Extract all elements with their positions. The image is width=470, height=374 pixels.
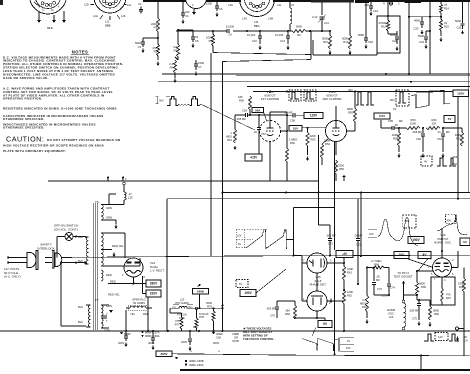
label 117 volts xyxy=(4,267,21,279)
coil L5 xyxy=(290,2,292,31)
svg-text:R58: R58 xyxy=(393,136,398,140)
svg-text:-4V: -4V xyxy=(342,252,348,256)
voltage box 9V xyxy=(318,321,332,328)
tube socket 51C xyxy=(228,0,294,28)
svg-text:R56: R56 xyxy=(339,167,344,171)
svg-text:80MF-C69A: 80MF-C69A xyxy=(145,334,160,338)
label V15 xyxy=(310,275,327,287)
svg-text:3500: 3500 xyxy=(206,301,212,305)
voltage box 330V xyxy=(146,280,161,287)
bottom right pulses xyxy=(424,333,459,342)
resistor R14 xyxy=(439,2,449,19)
voltage box 265V xyxy=(156,351,178,360)
svg-text:33: 33 xyxy=(444,21,447,25)
resistor R2 xyxy=(152,44,159,66)
svg-text:12V: 12V xyxy=(237,235,242,238)
svg-text:10V: 10V xyxy=(399,253,406,257)
capacitor C74 xyxy=(381,268,395,298)
resistor R62 xyxy=(342,289,353,332)
V16 wiring xyxy=(408,228,458,271)
wire diag left xyxy=(256,263,302,293)
capacitor C60B 40MF xyxy=(212,331,223,345)
svg-text:MF: MF xyxy=(399,119,403,123)
svg-text:L2H: L2H xyxy=(93,14,98,18)
svg-text:80MF: 80MF xyxy=(124,332,131,336)
svg-text:375: 375 xyxy=(175,319,180,323)
capacitor C61 xyxy=(437,128,450,158)
svg-text:L2L: L2L xyxy=(127,3,132,7)
capacitor C4 xyxy=(181,2,190,24)
rail y82 xyxy=(158,81,470,83)
svg-text:R55: R55 xyxy=(348,110,353,114)
horiz osc coil L23 xyxy=(387,295,406,330)
rail y354 xyxy=(173,354,470,357)
capacitor C72 xyxy=(354,199,363,252)
notes paragraph 2 xyxy=(3,87,113,101)
svg-text:R60: R60 xyxy=(432,118,437,122)
svg-text:470: 470 xyxy=(446,293,451,297)
wire x409 xyxy=(408,2,410,75)
svg-text:5600: 5600 xyxy=(322,37,328,41)
svg-text:RED-YEL: RED-YEL xyxy=(108,293,120,297)
svg-text:R53: R53 xyxy=(311,137,316,141)
capacitor C7 xyxy=(194,60,205,76)
notes paragraph 4 xyxy=(3,114,104,121)
svg-text:R4: R4 xyxy=(170,65,174,69)
wire x361 xyxy=(360,192,362,258)
resistor R61 right xyxy=(443,128,464,146)
svg-text:L.V. RECT.: L.V. RECT. xyxy=(150,269,165,273)
svg-text:R2: R2 xyxy=(154,49,158,53)
wire tube to rail xyxy=(334,141,336,356)
rail y181 xyxy=(48,177,318,182)
svg-text:.005: .005 xyxy=(452,155,458,159)
svg-text:C10: C10 xyxy=(252,39,257,43)
label V21 xyxy=(150,261,165,273)
rail y54 xyxy=(213,53,311,55)
svg-text:10V: 10V xyxy=(346,346,351,350)
capacitor C5A xyxy=(236,109,247,122)
svg-text:R54: R54 xyxy=(325,142,330,146)
transformer T8 core xyxy=(93,203,97,330)
wire diagonal to clipper xyxy=(201,104,256,130)
focus coil L22 xyxy=(170,298,224,320)
tube socket 51B xyxy=(84,0,142,28)
svg-text:150K: 150K xyxy=(347,267,353,271)
wire x311 shield xyxy=(311,31,330,59)
svg-text:.05: .05 xyxy=(376,275,380,279)
svg-text:HIGH VOLTAGE RECTIFIER OR SCOP: HIGH VOLTAGE RECTIFIER OR SCOPE READINGS… xyxy=(3,144,104,148)
svg-text:3300: 3300 xyxy=(338,163,344,167)
tube V12A xyxy=(260,121,281,142)
svg-text:C14: C14 xyxy=(324,21,329,25)
capacitor C75 xyxy=(409,300,421,326)
capacitor C57 xyxy=(254,114,266,154)
voltage box 115V xyxy=(304,112,323,118)
rail y59 xyxy=(223,60,312,62)
svg-text:L2K: L2K xyxy=(121,14,126,18)
phase det wiring xyxy=(294,193,346,322)
svg-text:4V: 4V xyxy=(448,117,452,121)
svg-text:-4.5V: -4.5V xyxy=(250,156,258,160)
waveform 36V xyxy=(156,97,201,106)
svg-text:40MF-C65B: 40MF-C65B xyxy=(189,359,204,363)
svg-text:C70: C70 xyxy=(270,314,275,318)
svg-text:61,000: 61,000 xyxy=(226,25,235,29)
svg-text:GRN: GRN xyxy=(106,206,112,210)
svg-text:R14: R14 xyxy=(444,6,449,10)
voltage box 190V xyxy=(240,290,256,297)
shield box IF xyxy=(313,40,377,55)
wire x388 xyxy=(387,2,389,20)
svg-text:R15: R15 xyxy=(444,24,449,28)
resistor R60 xyxy=(422,118,444,130)
voltage box 190V b xyxy=(408,237,424,244)
trimmer C14 xyxy=(312,2,329,32)
svg-text:1 MEG: 1 MEG xyxy=(289,137,297,141)
waveform clipper A xyxy=(289,90,316,101)
svg-text:CAUTION:: CAUTION: xyxy=(6,135,44,144)
svg-text:R11: R11 xyxy=(343,40,348,44)
svg-text:56V: 56V xyxy=(390,98,395,102)
svg-text:C9: C9 xyxy=(228,33,232,37)
svg-text:190V: 190V xyxy=(412,238,420,242)
svg-text:33MF-C66A: 33MF-C66A xyxy=(189,363,204,367)
resistor R10 xyxy=(322,30,332,55)
svg-text:(A.C. ONLY): (A.C. ONLY) xyxy=(4,275,21,279)
capacitor C13 xyxy=(275,31,290,50)
wire x468 right edge xyxy=(467,2,469,74)
transformer T7 primary xyxy=(78,305,91,327)
svg-text:.05: .05 xyxy=(394,123,398,127)
svg-text:36V: 36V xyxy=(159,99,164,103)
V21 wiring xyxy=(108,233,146,294)
svg-text:R51: R51 xyxy=(227,138,232,142)
svg-text:C60: C60 xyxy=(416,137,421,141)
svg-text:60: 60 xyxy=(464,335,467,339)
svg-text:OTHERWISE SPECIFIED.: OTHERWISE SPECIFIED. xyxy=(3,126,45,130)
transformer T8 label xyxy=(95,200,99,204)
svg-text:220: 220 xyxy=(185,10,190,14)
wire x167 xyxy=(166,199,168,331)
capacitor C9 xyxy=(226,25,235,37)
capacitor C60 xyxy=(412,128,425,158)
svg-text:C73: C73 xyxy=(377,287,382,291)
voltage box -4.5V xyxy=(245,154,262,161)
svg-text:MF: MF xyxy=(376,278,380,282)
svg-text:220K: 220K xyxy=(310,134,316,138)
wire 310V drop xyxy=(126,297,149,333)
wire 265 right xyxy=(357,252,359,285)
svg-text:R79: R79 xyxy=(207,304,212,308)
rail y91 xyxy=(253,91,453,93)
svg-text:28V: 28V xyxy=(405,219,410,223)
resistor R54 xyxy=(320,138,330,165)
voltage box 125V xyxy=(453,90,469,97)
svg-text:R67: R67 xyxy=(446,296,451,300)
svg-text:L3L: L3L xyxy=(277,3,282,7)
resistor R51 xyxy=(226,115,237,150)
svg-text:4V: 4V xyxy=(424,160,427,164)
svg-text:R1: R1 xyxy=(154,25,158,29)
svg-text:+: + xyxy=(190,350,192,354)
svg-text:L3M: L3M xyxy=(268,17,273,21)
svg-text:10,000: 10,000 xyxy=(275,33,284,37)
coil L25 xyxy=(109,182,133,204)
svg-text:NOTES: NOTES xyxy=(72,50,88,55)
svg-text:R61: R61 xyxy=(347,270,352,274)
resistor R79 xyxy=(206,301,215,332)
svg-text:.05 MF: .05 MF xyxy=(381,294,390,298)
svg-text:PLATE WITH ORDINARY EQUIPMENT.: PLATE WITH ORDINARY EQUIPMENT. xyxy=(3,149,66,153)
svg-text:RED-YEL: RED-YEL xyxy=(112,244,124,248)
svg-text:5600: 5600 xyxy=(296,25,302,29)
interlock plug xyxy=(45,251,62,269)
label SPKR PLG xyxy=(132,298,145,306)
svg-text:R66: R66 xyxy=(434,312,439,316)
resistor R58 xyxy=(392,127,401,158)
svg-text:R59: R59 xyxy=(411,118,416,122)
svg-text:4.7 MEG: 4.7 MEG xyxy=(371,259,382,263)
svg-text:R61: R61 xyxy=(456,136,461,140)
svg-text:C24: C24 xyxy=(419,40,424,44)
capacitor C22 xyxy=(388,31,399,51)
voltage box 115V right xyxy=(460,238,470,245)
svg-text:.47: .47 xyxy=(128,192,132,196)
resistor R4 xyxy=(169,60,176,83)
notes paragraph 5 xyxy=(3,122,96,129)
capacitor C25 xyxy=(455,2,465,35)
svg-text:2.2: 2.2 xyxy=(169,62,173,66)
label V16 xyxy=(434,233,452,245)
svg-text:870 OHMS: 870 OHMS xyxy=(175,301,189,305)
svg-text:RESISTORS INDICATED IN OHMS. K: RESISTORS INDICATED IN OHMS. K=1000 (ONE… xyxy=(3,107,118,111)
svg-text:HAVE NO SERVICE VALUE.: HAVE NO SERVICE VALUE. xyxy=(3,76,49,80)
waveform sawtooth top xyxy=(390,90,450,111)
svg-text:RED: RED xyxy=(106,273,112,277)
svg-text:THE FOCUS CONTROL.: THE FOCUS CONTROL. xyxy=(243,337,275,341)
capacitor C19 xyxy=(365,2,379,16)
svg-text:YEL: YEL xyxy=(130,312,136,316)
resistor R64 xyxy=(366,259,389,269)
svg-text:INTERLOCK: INTERLOCK xyxy=(37,246,54,250)
svg-text:40V: 40V xyxy=(447,218,452,222)
svg-text:C18: C18 xyxy=(368,40,373,44)
resistor R1 xyxy=(151,18,160,32)
capacitor C73 xyxy=(372,267,383,292)
svg-text:OPERATING POSITION.: OPERATING POSITION. xyxy=(3,97,42,101)
rail y85 xyxy=(247,86,470,88)
waveform 40V right xyxy=(437,214,467,234)
svg-text:47K: 47K xyxy=(152,46,157,50)
resistor R66 xyxy=(428,300,439,327)
tube V21 xyxy=(122,258,146,279)
bus wire y30 xyxy=(176,30,311,32)
rail y77 xyxy=(236,75,470,77)
svg-text:47000: 47000 xyxy=(379,21,387,25)
svg-text:46V: 46V xyxy=(348,88,353,92)
tube V15 upper xyxy=(302,253,334,273)
svg-text:240K: 240K xyxy=(197,290,205,294)
svg-text:5000: 5000 xyxy=(418,34,424,38)
svg-text:6V: 6V xyxy=(239,282,242,286)
svg-text:HORIZ: HORIZ xyxy=(387,308,396,312)
wire x222 xyxy=(222,62,224,332)
svg-text:5.6: 5.6 xyxy=(173,45,177,49)
svg-text:HORIZ. OSC.: HORIZ. OSC. xyxy=(434,241,452,245)
AC plug xyxy=(8,251,38,270)
voltage box 4V xyxy=(444,116,455,123)
svg-text:C13: C13 xyxy=(280,39,285,43)
plus marks xyxy=(190,350,220,354)
label safety interlock xyxy=(37,243,54,251)
svg-text:47: 47 xyxy=(444,3,447,7)
capacitor C67A C69A xyxy=(141,330,160,350)
svg-text:265V: 265V xyxy=(160,352,167,356)
notes paragraph 1 xyxy=(3,55,123,80)
resistor R52 xyxy=(285,91,297,182)
svg-text:C71: C71 xyxy=(328,242,333,246)
wire x430 xyxy=(426,2,431,74)
svg-text:C2: C2 xyxy=(138,2,142,6)
svg-text:2ND CLIPPER: 2ND CLIPPER xyxy=(323,97,342,101)
svg-text:300V: 300V xyxy=(213,341,219,345)
waveform bottom mid xyxy=(302,328,354,352)
svg-text:6800: 6800 xyxy=(433,309,439,313)
test socket arrow xyxy=(402,281,418,297)
clipper wiring xyxy=(235,106,355,181)
svg-text:DO NOT ATTEMPT VOLTAGE READING: DO NOT ATTEMPT VOLTAGE READINGS ON xyxy=(47,138,120,142)
svg-text:100K: 100K xyxy=(347,290,353,294)
waveform 10V left xyxy=(368,215,418,246)
svg-text:OR: OR xyxy=(234,335,238,339)
waveform clipper B xyxy=(348,88,374,105)
svg-text:6V: 6V xyxy=(238,243,241,246)
capacitor C71 xyxy=(319,225,337,256)
svg-text:C19: C19 xyxy=(373,9,378,13)
svg-text:L23: L23 xyxy=(180,298,185,302)
svg-text:.005 MF: .005 MF xyxy=(409,309,419,313)
svg-text:RED: RED xyxy=(110,279,116,283)
svg-text:TEST SOCKET: TEST SOCKET xyxy=(393,275,413,279)
svg-text:H5: H5 xyxy=(463,240,467,244)
svg-text:6800: 6800 xyxy=(419,282,425,286)
svg-text:2200: 2200 xyxy=(151,22,157,26)
pin labels 4-2 xyxy=(383,2,400,6)
svg-text:40MF: 40MF xyxy=(216,332,223,336)
pin tick x344 xyxy=(342,175,345,181)
resistor R11 xyxy=(342,2,352,55)
svg-text:PHASE DET.: PHASE DET. xyxy=(310,283,327,287)
svg-text:R65: R65 xyxy=(421,285,426,289)
small dashed box 6V xyxy=(236,280,248,288)
top border edge xyxy=(0,0,470,5)
svg-text:R62: R62 xyxy=(347,293,352,297)
tube V15 lower xyxy=(302,291,335,311)
svg-text:BLK: BLK xyxy=(78,235,83,239)
svg-text:5080: 5080 xyxy=(358,33,364,37)
resistor R65 xyxy=(415,270,426,300)
resistor R53 xyxy=(306,127,316,161)
label off-on switch xyxy=(54,224,78,232)
wire y255 long xyxy=(61,255,470,257)
power wiring left xyxy=(60,236,86,265)
box corner wires phase xyxy=(293,208,335,257)
resistor R50 xyxy=(238,95,252,116)
capacitor C24 xyxy=(418,31,428,49)
svg-text:400V: 400V xyxy=(181,340,187,344)
wire x374 down xyxy=(374,291,389,295)
capacitor C18 xyxy=(358,2,373,49)
svg-text:C67B: C67B xyxy=(232,339,239,343)
svg-text:51C: 51C xyxy=(254,24,260,28)
labels YEL RED xyxy=(130,312,149,316)
transformer T7 secondary xyxy=(101,304,113,333)
svg-text:C22: C22 xyxy=(392,39,397,43)
resistor R77 xyxy=(170,308,183,331)
svg-text:125V: 125V xyxy=(457,91,464,95)
svg-text:4V: 4V xyxy=(393,107,396,111)
svg-text:22K: 22K xyxy=(432,121,437,125)
tube socket V3 xyxy=(186,0,207,15)
svg-text:R10: R10 xyxy=(323,40,328,44)
svg-text:MEG: MEG xyxy=(226,134,232,138)
resistor R61b xyxy=(342,263,353,290)
svg-text:R50: R50 xyxy=(239,98,244,102)
svg-text:33: 33 xyxy=(195,35,198,39)
tube socket 51A xyxy=(30,0,67,30)
svg-text:OTHERWISE SPECIFIED.: OTHERWISE SPECIFIED. xyxy=(3,117,45,121)
on-off switch xyxy=(57,233,73,258)
resistor R68 xyxy=(458,268,466,303)
svg-text:C4: C4 xyxy=(185,14,189,18)
tube V16 xyxy=(428,258,455,282)
wire y199 xyxy=(167,198,470,200)
transformer T7 core xyxy=(93,303,97,329)
svg-text:R77: R77 xyxy=(175,322,180,326)
svg-text:L25: L25 xyxy=(128,195,133,199)
svg-text:C61: C61 xyxy=(437,137,442,141)
resistor R63 xyxy=(360,268,369,325)
svg-text:5000: 5000 xyxy=(342,37,348,41)
wire x468 v xyxy=(467,74,469,193)
transformer T8 secondary HV xyxy=(101,233,140,266)
svg-text:330K: 330K xyxy=(324,138,330,142)
capacitor C70 xyxy=(266,301,295,318)
svg-text:T7: T7 xyxy=(95,298,99,302)
transformer T8 filament winding xyxy=(101,270,112,281)
voltage box -4V xyxy=(336,251,353,264)
svg-text:310V: 310V xyxy=(150,292,158,296)
svg-text:.05 MF: .05 MF xyxy=(284,111,293,115)
svg-text:(ON VOL. CONT.): (ON VOL. CONT.) xyxy=(54,227,78,231)
potentiometer R78 xyxy=(193,307,209,331)
svg-text:+: + xyxy=(218,350,220,354)
voltage box 10V xyxy=(289,125,302,131)
T7 wiring xyxy=(58,237,86,326)
resistor R6 xyxy=(292,25,306,38)
svg-text:330V: 330V xyxy=(150,282,158,286)
rail y369 xyxy=(180,369,470,371)
capacitor C5 xyxy=(191,30,199,48)
svg-text:R6: R6 xyxy=(297,33,301,37)
svg-text:14V: 14V xyxy=(438,335,443,339)
voltage box 240K xyxy=(193,284,209,308)
svg-text:4800: 4800 xyxy=(414,18,420,22)
svg-text:GRN: GRN xyxy=(106,216,112,220)
svg-text:.005 MF: .005 MF xyxy=(266,307,276,311)
terminal circle right xyxy=(455,302,464,356)
